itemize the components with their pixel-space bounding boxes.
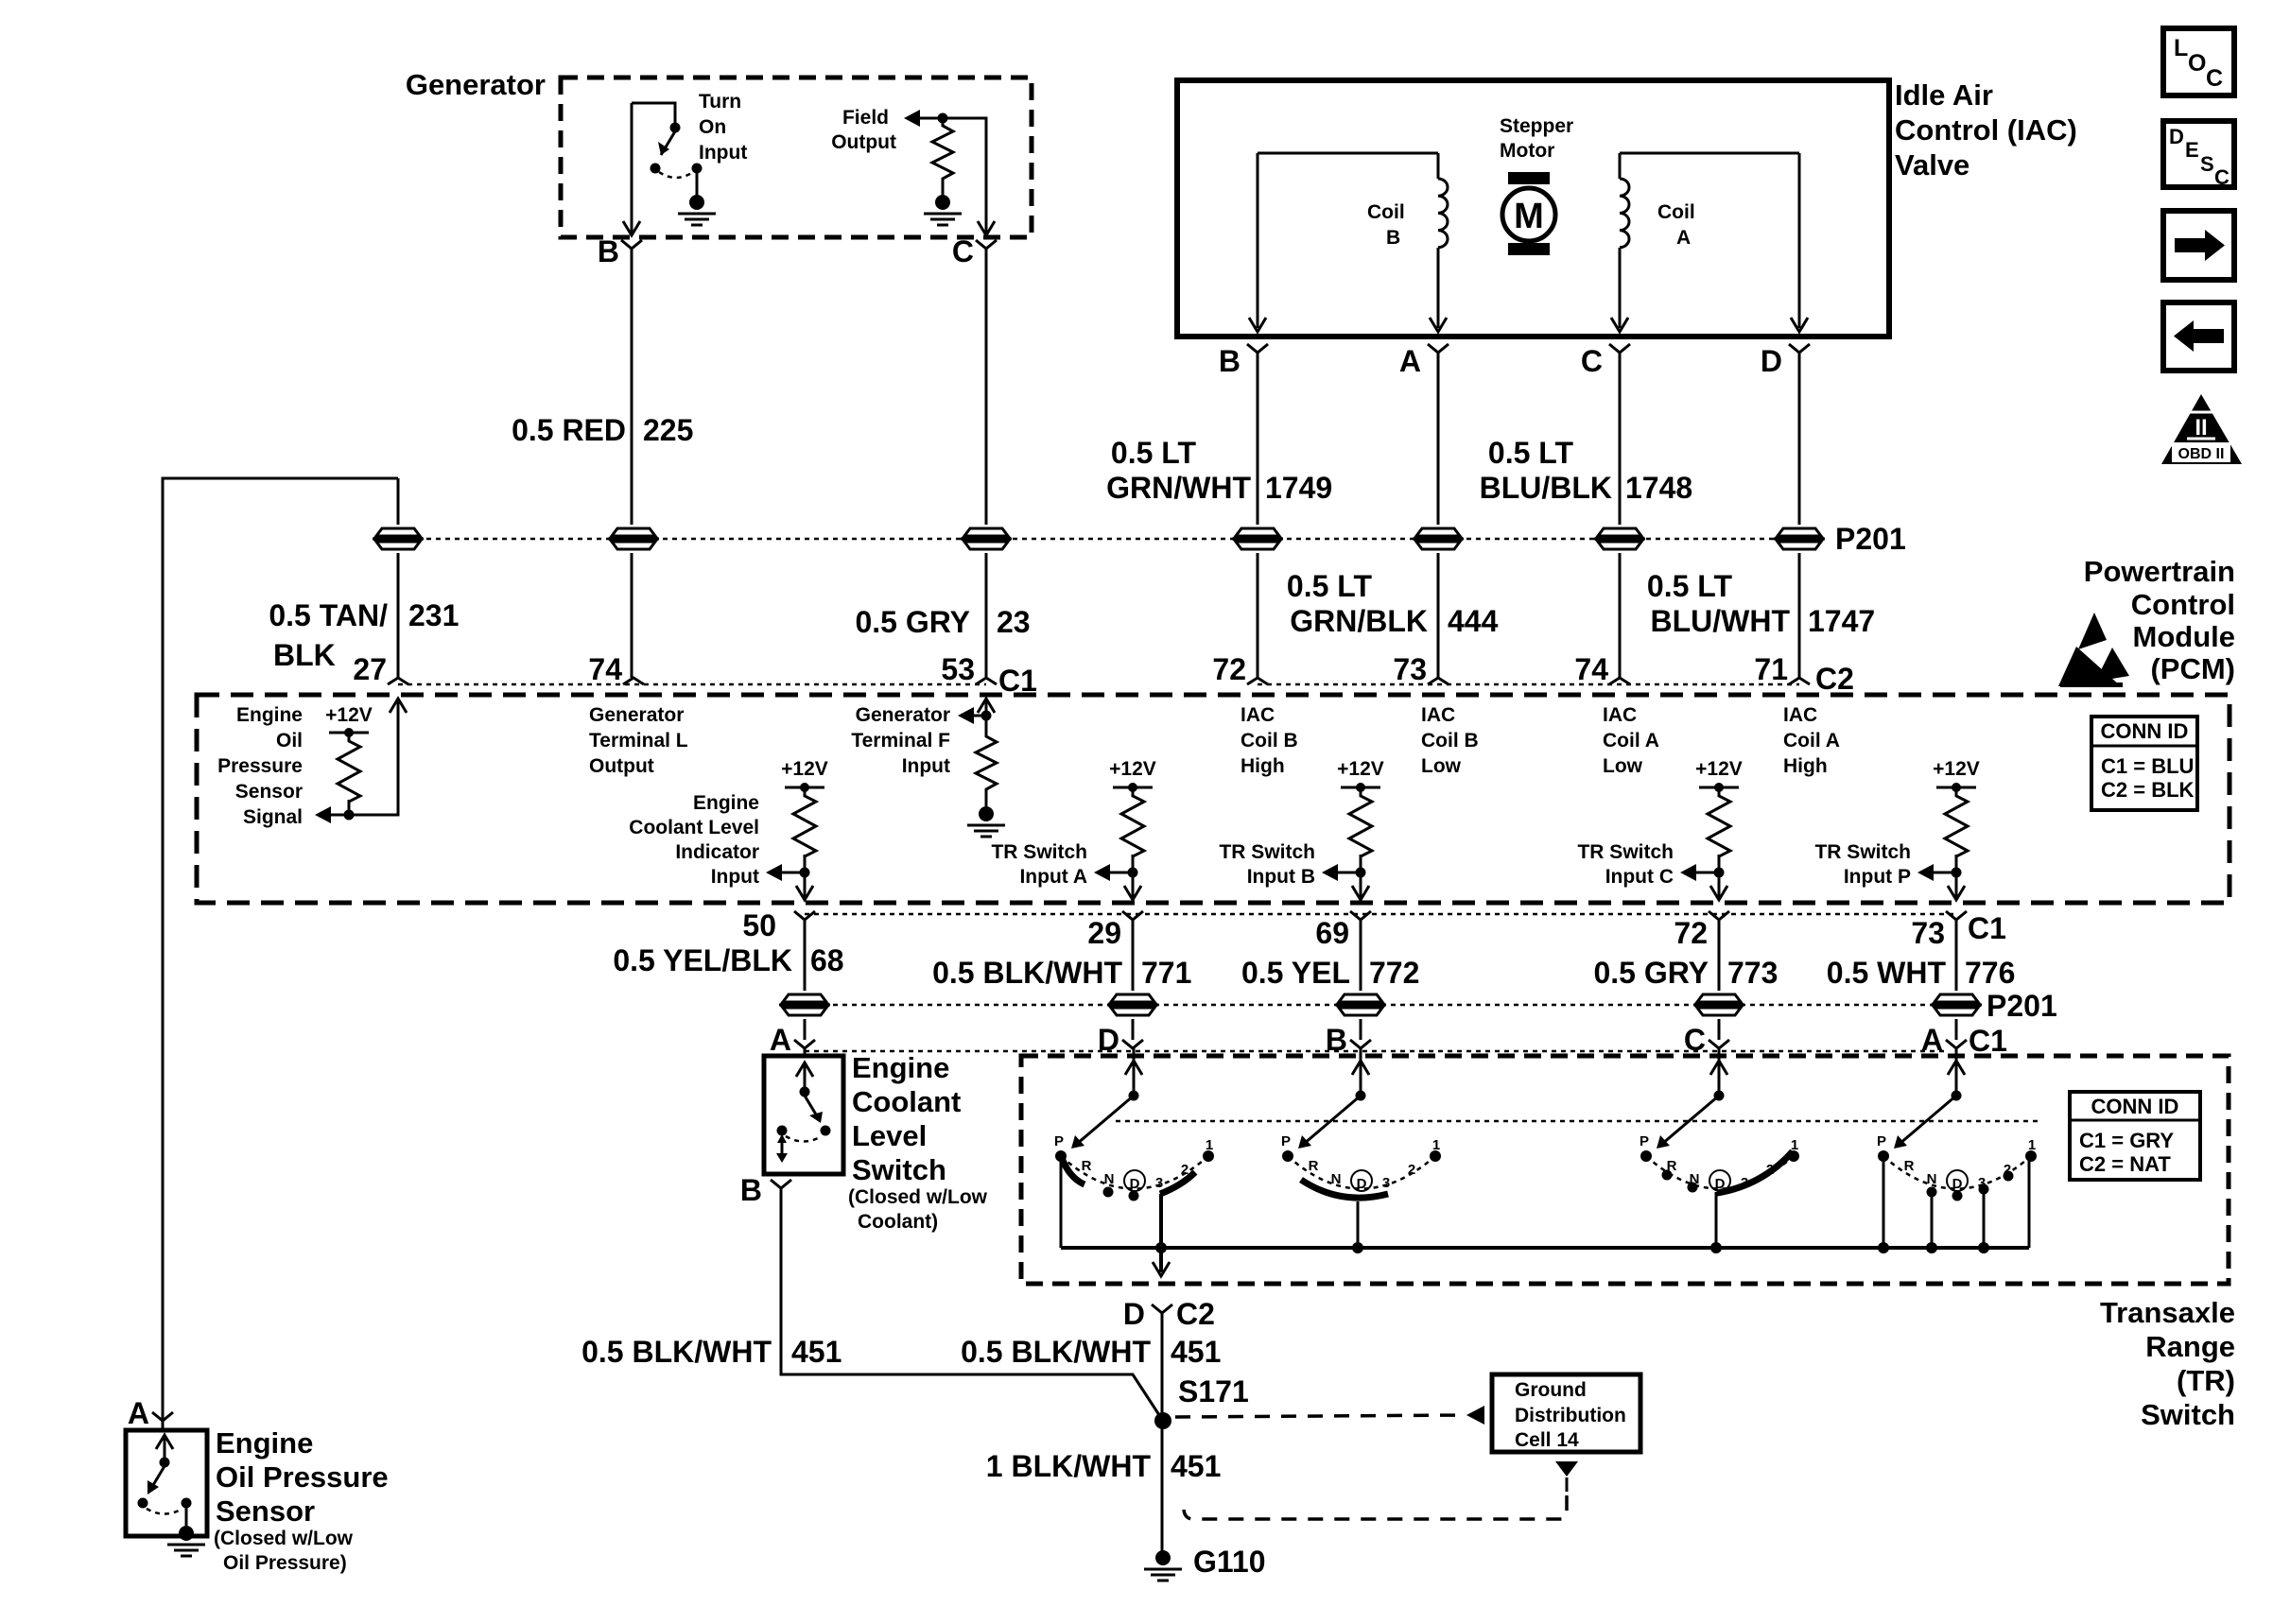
svg-text:1747: 1747 (1808, 604, 1875, 638)
svg-text:R: R (1904, 1158, 1915, 1174)
svg-text:IAC: IAC (1783, 704, 1817, 726)
in-line connector P201 (lower) at x=2069 (1931, 994, 1982, 1015)
svg-text:+12V: +12V (781, 758, 828, 780)
contact 3 output wire to ground bus (switch 1) (1159, 1194, 1163, 1272)
in-line connector P201 at x=1330 (1232, 528, 1283, 549)
coolant switch internal arm (804, 1065, 807, 1088)
svg-text:Ground: Ground (1515, 1379, 1587, 1401)
dashed reference from S171 to ground distribution cell (1175, 1415, 1465, 1417)
svg-text:C2 = BLK: C2 = BLK (2101, 778, 2195, 802)
svg-text:Low: Low (1603, 755, 1643, 777)
terminal B chevron (621, 240, 642, 249)
chevron terminal B (lower row) (1350, 1040, 1371, 1048)
svg-text:Oil Pressure): Oil Pressure) (223, 1552, 347, 1574)
1 contact drop wire (switch 4) (2028, 1161, 2031, 1248)
thick contact segment P-R (switch 1) (1062, 1158, 1084, 1184)
svg-text:+12V: +12V (1337, 758, 1384, 780)
chevron terminal D (lower row) (1122, 1040, 1143, 1048)
wire: generator internal B branch (632, 103, 675, 233)
svg-text:Motor: Motor (1500, 140, 1554, 162)
thick contact segment R-3 (switch 2) (1301, 1180, 1388, 1198)
svg-text:0.5 BLK/WHT: 0.5 BLK/WHT (932, 956, 1122, 990)
svg-text:E: E (2185, 138, 2199, 162)
svg-text:Sensor: Sensor (216, 1494, 315, 1528)
wire 451: TR D/C2 down to S171 and G110 (1161, 1313, 1164, 1551)
svg-text:451: 451 (1171, 1449, 1221, 1483)
svg-text:D: D (1123, 1297, 1145, 1331)
svg-text:0.5 WHT: 0.5 WHT (1827, 956, 1947, 990)
splice S171 (1154, 1412, 1171, 1429)
wire 772: 0.5 YEL PCM to TR switch (1360, 920, 1362, 1040)
svg-text:CONN ID: CONN ID (2101, 719, 2189, 743)
PCM pin 27 internal circuit (oil pressure sensor signal) (319, 700, 398, 815)
PCM bottom pin 69 chevron (1350, 911, 1371, 920)
contact arc 3 (1646, 1156, 1794, 1189)
PCM CONN ID table (2091, 717, 2197, 810)
OBD II triangle icon (2161, 394, 2242, 464)
svg-text:(Closed w/Low: (Closed w/Low (848, 1186, 988, 1208)
svg-text:451: 451 (1171, 1335, 1221, 1369)
svg-text:Input: Input (902, 755, 950, 777)
svg-text:O: O (2188, 50, 2206, 77)
svg-text:G110: G110 (1193, 1545, 1266, 1579)
svg-text:27: 27 (353, 652, 387, 686)
svg-text:Control: Control (2131, 588, 2235, 621)
svg-text:IAC: IAC (1241, 704, 1275, 726)
svg-text:P201: P201 (1987, 989, 2057, 1023)
svg-text:+12V: +12V (1933, 758, 1980, 780)
svg-text:C: C (952, 234, 974, 268)
IAC terminal C chevron (1609, 344, 1630, 353)
wire 776: 0.5 WHT PCM to TR switch (1955, 920, 1958, 1040)
svg-text:23: 23 (997, 605, 1031, 639)
svg-text:C2: C2 (1176, 1297, 1215, 1331)
svg-text:Generator: Generator (589, 704, 684, 726)
svg-text:R: R (1667, 1158, 1677, 1174)
oil sensor right contact (182, 1498, 192, 1509)
contact dots N,D,3,2 (switch 4) (1927, 1187, 1937, 1198)
wire 23: 0.5 GRY generator C to PCM 53 (985, 249, 988, 678)
svg-text:Coolant Level: Coolant Level (629, 817, 759, 838)
TR rotary switch 4 entry wire (1955, 1047, 1958, 1094)
svg-text:68: 68 (810, 943, 844, 977)
svg-text:Coil: Coil (1657, 201, 1695, 223)
right contact dot (692, 164, 703, 174)
svg-text:Input A: Input A (1019, 866, 1087, 888)
svg-text:P: P (1054, 1133, 1064, 1149)
contact dots N,D (switch 1) (1103, 1187, 1114, 1198)
svg-text:Level: Level (852, 1119, 927, 1152)
thick contact segment 3-2 (switch 1) (1160, 1172, 1195, 1194)
svg-text:0.5 LT: 0.5 LT (1111, 436, 1197, 470)
svg-text:B: B (740, 1173, 762, 1207)
contact P dot 2 (1282, 1150, 1293, 1162)
svg-text:CONN ID: CONN ID (2091, 1095, 2179, 1118)
svg-text:Turn: Turn (699, 91, 741, 112)
PCM pin 71 chevron (1789, 678, 1810, 684)
svg-text:776: 776 (1965, 956, 2015, 990)
oil sensor internal arm (164, 1438, 166, 1460)
svg-text:73: 73 (1393, 652, 1427, 686)
svg-text:0.5 LT: 0.5 LT (1647, 569, 1733, 603)
svg-text:OBD II: OBD II (2178, 446, 2225, 462)
svg-text:D: D (1952, 1176, 1963, 1192)
in-line connector P201 (lower) at x=851 (779, 994, 830, 1015)
PCM C2 top connector row (1258, 683, 1799, 686)
svg-text:Field: Field (842, 107, 889, 129)
in-line connector P201 at x=1903 (1774, 528, 1825, 549)
svg-text:2: 2 (1181, 1162, 1189, 1178)
svg-text:225: 225 (643, 413, 693, 447)
wiper arm 3 (1662, 1096, 1719, 1144)
svg-text:Terminal L: Terminal L (589, 730, 688, 752)
svg-text:Oil Pressure: Oil Pressure (216, 1460, 389, 1494)
stepper motor symbol M (1508, 172, 1550, 184)
IAC terminal D chevron (1789, 344, 1810, 353)
svg-text:D: D (1098, 1023, 1119, 1057)
PCM pin 72 chevron (1247, 678, 1268, 684)
svg-text:Generator: Generator (856, 704, 950, 726)
svg-text:High: High (1783, 755, 1828, 777)
svg-text:C1 = BLU: C1 = BLU (2101, 754, 2194, 778)
TR rotary switch 2 entry wire (1360, 1047, 1362, 1094)
svg-text:Switch: Switch (2141, 1398, 2235, 1431)
svg-text:Sensor: Sensor (235, 781, 303, 803)
svg-text:0.5 BLK/WHT: 0.5 BLK/WHT (581, 1335, 772, 1369)
svg-text:72: 72 (1212, 652, 1246, 686)
svg-text:C: C (1684, 1023, 1706, 1057)
PCM bottom pin 50 chevron (794, 911, 815, 920)
left contact dot (651, 164, 661, 174)
dashed link below ground distribution box (1555, 1461, 1578, 1477)
svg-text:Pressure: Pressure (217, 755, 303, 777)
PCM C1 top connector row (398, 683, 986, 686)
svg-text:0.5 GRY: 0.5 GRY (855, 605, 970, 639)
svg-text:A: A (770, 1023, 791, 1057)
svg-text:C1: C1 (998, 664, 1037, 698)
svg-text:TR Switch: TR Switch (1814, 841, 1911, 863)
ESD-sensitive symbol (2058, 613, 2129, 687)
coolant switch left contact (777, 1126, 788, 1136)
svg-text:N: N (1104, 1171, 1115, 1187)
wiper arm 4 (1900, 1096, 1956, 1144)
wire: generator internal C branch (919, 118, 986, 233)
svg-text:Idle Air: Idle Air (1895, 78, 1993, 112)
svg-text:(TR): (TR) (2177, 1364, 2235, 1397)
svg-text:A: A (128, 1396, 149, 1430)
in-line connector P201 at x=1043 (961, 528, 1012, 549)
chevron terminal C (lower row) (1709, 1040, 1729, 1048)
resistor (generator field) (932, 122, 953, 182)
svg-text:B: B (1386, 227, 1400, 249)
svg-text:IAC: IAC (1603, 704, 1637, 726)
chevron terminal A (lower row) (794, 1040, 815, 1048)
svg-text:Stepper: Stepper (1500, 115, 1573, 137)
svg-text:0.5 RED: 0.5 RED (512, 413, 626, 447)
svg-text:Switch: Switch (852, 1153, 946, 1186)
ground G110 (1144, 1550, 1182, 1581)
pivot dot 2 (1356, 1091, 1366, 1101)
in-line connector P201 at x=1713 (1594, 528, 1645, 549)
in-line connector P201 at x=1521 (1413, 528, 1464, 549)
svg-text:Distribution: Distribution (1515, 1405, 1626, 1426)
terminal B chevron (coolant switch) (771, 1180, 791, 1188)
svg-text:C1: C1 (1969, 1024, 2007, 1058)
pivot dot 4 (1952, 1091, 1962, 1101)
svg-text:Coolant): Coolant) (858, 1211, 938, 1233)
wiper arm 1 (1077, 1096, 1134, 1144)
svg-text:B: B (1326, 1023, 1347, 1057)
TR terminal D/C2 chevron (1152, 1304, 1172, 1313)
svg-text:Range: Range (2145, 1330, 2235, 1363)
in-line connector P201 at x=670 (608, 528, 659, 549)
svg-text:Engine: Engine (852, 1051, 949, 1084)
svg-text:C1 = GRY: C1 = GRY (2079, 1129, 2174, 1152)
svg-text:C2 = NAT: C2 = NAT (2079, 1152, 2171, 1176)
DESC icon box (2163, 121, 2234, 187)
svg-text:0.5 YEL: 0.5 YEL (1241, 956, 1350, 990)
svg-text:L: L (2174, 35, 2188, 61)
Engine Coolant Level Switch box (764, 1056, 843, 1174)
svg-text:3: 3 (1155, 1175, 1163, 1191)
svg-text:N: N (1690, 1171, 1700, 1187)
svg-text:II: II (2195, 415, 2207, 441)
TR rotary switch 3 entry wire (1718, 1047, 1721, 1094)
PCM C1 bottom connector row (805, 913, 1956, 916)
svg-text:M: M (1514, 197, 1544, 236)
float travel arrow (781, 1136, 784, 1157)
svg-text:3: 3 (1741, 1175, 1748, 1191)
svg-text:D: D (1715, 1176, 1726, 1192)
switch arm (Turn On Input) (661, 131, 675, 155)
PCM pin 53 chevron (976, 678, 997, 684)
pivot dot 1 (1129, 1091, 1139, 1101)
svg-text:Input P: Input P (1844, 866, 1911, 888)
svg-text:TR Switch: TR Switch (1219, 841, 1315, 863)
svg-text:772: 772 (1369, 956, 1419, 990)
svg-text:Coolant: Coolant (852, 1085, 961, 1118)
svg-text:C: C (2206, 65, 2223, 92)
contact 1 dot 3 (1788, 1150, 1799, 1162)
ground (oil sensor) (167, 1526, 205, 1556)
wire 68: 0.5 YEL/BLK PCM 50 to coolant switch (804, 920, 807, 1057)
wire to ground (oil sensor) (185, 1506, 188, 1526)
svg-text:Input B: Input B (1247, 866, 1315, 888)
switch pivot dot (Turn On Input) (670, 123, 681, 133)
svg-text:P: P (1281, 1133, 1291, 1149)
contact 1 dot 1 (1203, 1150, 1214, 1162)
svg-text:Coil A: Coil A (1783, 730, 1840, 752)
svg-text:Input: Input (699, 142, 747, 164)
node: field resistor tap dot (938, 113, 948, 124)
chevron terminal A (lower row) (1946, 1040, 1967, 1048)
dashed contact arc (659, 172, 693, 178)
svg-text:74: 74 (1574, 652, 1608, 686)
TR selector linkage dashed line (1116, 1120, 2042, 1123)
svg-text:BLU/WHT: BLU/WHT (1650, 604, 1790, 638)
svg-text:C: C (2214, 165, 2230, 189)
contact arc 4 (1883, 1156, 2031, 1189)
PCM pin 73 chevron (1428, 678, 1449, 684)
svg-text:3: 3 (1978, 1175, 1986, 1191)
svg-text:Coil: Coil (1367, 201, 1405, 223)
wiper arm 2 (1304, 1096, 1361, 1144)
svg-text:C: C (1581, 344, 1603, 378)
3 contact drop wire (switch 4) (1983, 1192, 1986, 1248)
svg-text:773: 773 (1727, 956, 1778, 990)
svg-text:R: R (1082, 1158, 1092, 1174)
svg-text:Engine: Engine (216, 1426, 313, 1460)
oil sensor left contact (138, 1498, 148, 1509)
svg-text:P201: P201 (1835, 522, 1906, 556)
in-line connector P201 (lower) at x=1198 (1107, 994, 1158, 1015)
svg-text:S: S (2200, 152, 2214, 176)
pivot dot 3 (1714, 1091, 1725, 1101)
contact dots R,N (switch 3) (1662, 1170, 1673, 1181)
svg-text:Output: Output (831, 131, 896, 153)
IAC terminal B chevron (1247, 344, 1268, 353)
LOC icon box (2163, 28, 2234, 95)
svg-text:Input C: Input C (1605, 866, 1674, 888)
contact arc 1 (1061, 1156, 1208, 1189)
wire from IAC D down to PCM (1798, 353, 1801, 678)
svg-text:Cell 14: Cell 14 (1515, 1429, 1579, 1451)
wire to ground (Turn On Input) (696, 171, 699, 196)
PCM bottom pin 29 chevron (1122, 911, 1143, 920)
TR rotary switch 1 entry wire (1133, 1047, 1136, 1094)
wire 231: 0.5 TAN/BLK from oil pressure sensor to PCM 27 (163, 478, 398, 1421)
TR connector C1 thin dashed row (805, 1050, 1948, 1053)
coolant switch right contact (821, 1126, 831, 1136)
right-arrow icon box (2163, 211, 2234, 280)
output wire to bus (switch 2) (1357, 1201, 1360, 1248)
left-arrow icon box (2163, 302, 2234, 371)
svg-text:D: D (1761, 344, 1782, 378)
svg-text:444: 444 (1448, 604, 1499, 638)
svg-text:Signal: Signal (243, 806, 303, 828)
svg-text:0.5 LT: 0.5 LT (1488, 436, 1574, 470)
PCM pin 74 chevron (1609, 678, 1630, 684)
in-line connector P201 at x=421 (373, 528, 424, 549)
svg-text:Transaxle: Transaxle (2100, 1296, 2235, 1329)
contact P dot 4 (1878, 1150, 1889, 1162)
Engine Oil Pressure Sensor box (162, 1421, 165, 1431)
ground (generator field) (924, 195, 962, 225)
generator dashed box (561, 78, 1032, 237)
svg-text:Output: Output (589, 755, 654, 777)
node: resistor/signal junction (344, 810, 355, 821)
svg-text:0.5 LT: 0.5 LT (1287, 569, 1373, 603)
resistor (oil pressure pull-up) (338, 736, 360, 806)
svg-text:Low: Low (1421, 755, 1462, 777)
svg-text:Control (IAC): Control (IAC) (1895, 113, 2077, 147)
wire from IAC A down to PCM (1437, 353, 1440, 678)
wire 225: 0.5 RED generator B to PCM 74 (631, 249, 633, 678)
svg-text:P: P (1877, 1133, 1886, 1149)
svg-text:A: A (1399, 344, 1421, 378)
svg-text:231: 231 (408, 598, 459, 632)
TR CONN ID table (2070, 1092, 2200, 1180)
svg-text:451: 451 (791, 1335, 842, 1369)
PCM bottom pin 72 chevron (1709, 911, 1729, 920)
wire from IAC C down to PCM (1619, 353, 1622, 678)
svg-text:C2: C2 (1815, 662, 1854, 696)
svg-text:Valve: Valve (1895, 148, 1969, 181)
svg-text:74: 74 (588, 652, 622, 686)
svg-text:Engine: Engine (693, 792, 759, 814)
svg-text:D: D (1130, 1176, 1140, 1192)
terminal A chevron (oil pressure sensor) (152, 1412, 173, 1421)
svg-text:TR Switch: TR Switch (1577, 841, 1674, 863)
PCM pin 74 chevron (623, 678, 644, 684)
svg-text:IAC: IAC (1421, 704, 1455, 726)
arrow Field Output (904, 110, 920, 127)
in-line connector P201 (lower) at x=1818 (1693, 994, 1744, 1015)
svg-text:R: R (1309, 1158, 1319, 1174)
svg-text:C1: C1 (1968, 911, 2006, 945)
P201 splice pass-through row (lower) (805, 1004, 1956, 1007)
thick contact segment 3-1 (switch 3) (1717, 1151, 1793, 1193)
svg-text:B: B (1219, 344, 1241, 378)
svg-text:Powertrain: Powertrain (2084, 555, 2235, 588)
TR contact bus (1061, 1246, 2029, 1250)
svg-text:Coil B: Coil B (1241, 730, 1298, 752)
svg-text:+12V: +12V (325, 704, 373, 726)
svg-text:(Closed w/Low: (Closed w/Low (214, 1528, 354, 1549)
svg-text:+12V: +12V (1109, 758, 1156, 780)
svg-text:2: 2 (1766, 1162, 1774, 1178)
svg-text:Terminal F: Terminal F (851, 730, 950, 752)
in-line connector P201 (lower) at x=1439 (1335, 994, 1386, 1015)
svg-text:High: High (1241, 755, 1285, 777)
ground (terminal F) (967, 806, 1005, 837)
svg-text:Coil A: Coil A (1603, 730, 1659, 752)
svg-text:Indicator: Indicator (675, 841, 759, 863)
svg-text:0.5 YEL/BLK: 0.5 YEL/BLK (613, 943, 792, 977)
svg-text:73: 73 (1911, 916, 1945, 950)
svg-text:69: 69 (1315, 916, 1349, 950)
svg-text:TR Switch: TR Switch (991, 841, 1087, 863)
svg-text:Module: Module (2133, 620, 2236, 653)
svg-text:0.5 BLK/WHT: 0.5 BLK/WHT (961, 1335, 1151, 1369)
coil A winding circuit (1620, 153, 1799, 328)
PCM pin 27 chevron (388, 678, 408, 684)
terminal C chevron (976, 240, 997, 249)
P201 splice pass-through row (upper) (398, 538, 1801, 541)
svg-text:A: A (1921, 1023, 1943, 1057)
svg-text:0.5 TAN/: 0.5 TAN/ (269, 598, 388, 632)
wire from IAC B down to PCM (1257, 353, 1259, 678)
svg-text:(PCM): (PCM) (2150, 652, 2235, 685)
arrowhead at generator C exit (978, 221, 995, 235)
Transaxle Range (TR) Switch dashed box (1021, 1056, 2229, 1284)
svg-text:29: 29 (1087, 916, 1121, 950)
svg-text:+12V: +12V (1695, 758, 1743, 780)
svg-text:771: 771 (1141, 956, 1191, 990)
Ground Distribution Cell 14 box (1492, 1374, 1640, 1452)
ground (Turn On Input) (678, 195, 716, 225)
svg-text:2: 2 (2004, 1162, 2011, 1178)
svg-text:72: 72 (1674, 916, 1708, 950)
svg-text:B: B (598, 234, 619, 268)
svg-text:BLU/BLK: BLU/BLK (1480, 471, 1612, 505)
svg-text:50: 50 (742, 908, 776, 942)
contact P dot 3 (1640, 1150, 1652, 1162)
svg-text:Input: Input (711, 866, 759, 888)
coil B winding circuit (1258, 153, 1438, 328)
svg-text:S171: S171 (1178, 1374, 1249, 1408)
svg-text:P: P (1640, 1133, 1649, 1149)
